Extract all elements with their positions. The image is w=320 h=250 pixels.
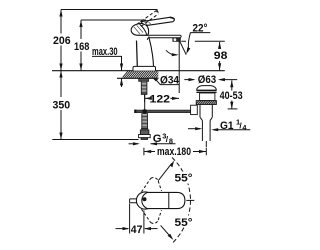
drain locknut hatched <box>196 101 216 105</box>
svg-text:122: 122 <box>150 93 171 105</box>
svg-text:Ø63: Ø63 <box>198 74 216 86</box>
lower 55deg axis line with arrow <box>161 225 172 237</box>
G1 1/4 left arrow <box>188 128 200 130</box>
white gap behind 55deg labels <box>173 172 195 184</box>
plan pill inner line <box>168 193 170 209</box>
mounting nut below deck <box>139 78 149 81</box>
svg-text:55°: 55° <box>175 217 193 229</box>
lever knob (cartridge cap) <box>131 23 149 35</box>
stream tilted 22deg line <box>180 42 186 55</box>
svg-text:max.180: max.180 <box>157 146 191 158</box>
plan pop-up rod stub <box>130 199 137 203</box>
rod ball joint <box>142 109 147 114</box>
plan small knob dot <box>143 197 147 201</box>
svg-text:47: 47 <box>131 224 143 236</box>
dimension max.180 <box>144 151 206 153</box>
rod fitting on drain <box>191 105 198 114</box>
dashed swivel arc <box>172 158 191 201</box>
dimension 40-53 vertical <box>231 80 233 90</box>
svg-text:350: 350 <box>53 100 71 112</box>
dimension O63 line with arrows <box>184 79 193 81</box>
swivel zero tick <box>186 199 194 201</box>
dashed raised lever <box>137 10 157 24</box>
wire deck top line <box>52 70 225 72</box>
stream vertical reference line from aerator <box>178 42 180 93</box>
drain flange dome <box>197 86 217 91</box>
wire 98 top reference line <box>181 40 225 42</box>
pop-up vertical rod <box>144 94 146 109</box>
lever knob shading <box>134 25 143 34</box>
plan view: body circle <box>136 192 153 209</box>
wire deck bottom line <box>117 77 159 79</box>
tick at faucet centerline <box>144 95 146 103</box>
arrow 122 right <box>172 97 179 100</box>
aerator under spout tip <box>173 38 181 42</box>
wire hose-end reference line <box>52 139 138 141</box>
horizontal pop-up rod to drain <box>135 110 191 112</box>
dimension 168 vertical line <box>80 20 82 39</box>
svg-text:40-53: 40-53 <box>220 90 243 102</box>
spout underside fillet into body <box>147 38 149 40</box>
lever blade (rest position) <box>141 17 175 25</box>
flexible hose ribbed <box>142 114 148 129</box>
dimension 47 <box>129 204 131 234</box>
svg-text:55°: 55° <box>175 173 193 185</box>
arrow at tilted line <box>186 47 190 54</box>
arc arrow left of vertical line <box>166 50 177 55</box>
dimension 122 line <box>145 97 179 99</box>
dimension 206 vertical line <box>60 10 62 34</box>
faucet base plate <box>133 66 156 70</box>
svg-text:98: 98 <box>214 50 228 62</box>
faucet body column front edge <box>136 41 139 67</box>
raised lever tip <box>156 10 159 13</box>
lever blade tip accent <box>170 17 175 19</box>
lever blade shading <box>145 22 151 25</box>
drain taper to tailpipe <box>200 117 212 120</box>
dashed lever position down <box>142 209 162 223</box>
arrow 98 top <box>218 42 221 49</box>
arrow 168 bottom <box>79 64 82 71</box>
arrow 350 down to hose end <box>59 133 62 140</box>
arrow 206 bottom <box>59 64 62 71</box>
arrow max.30 up to deck bottom <box>121 78 123 87</box>
G3/8 hose end fitting <box>141 128 148 130</box>
svg-text:206: 206 <box>53 35 71 47</box>
spout blade top line and tip <box>137 35 182 38</box>
arrow 350 up to deck <box>59 71 62 78</box>
svg-text:168: 168 <box>74 41 89 53</box>
G1 1/4 leader underline with arrow <box>214 129 251 131</box>
arrow 168 top <box>79 20 82 27</box>
arrow max.30 down to deck top <box>120 64 123 71</box>
arrow max.180 left <box>144 150 151 153</box>
drain centerline below tailpipe <box>205 141 207 147</box>
label G3/8 <box>153 132 173 146</box>
dimension 350 vertical line <box>60 71 62 98</box>
rod left end cap <box>134 110 136 113</box>
leader curve from 22deg to tilted stream line <box>188 33 191 52</box>
faucet body back edge curve <box>149 37 154 67</box>
arrow O34 pointing at base edge <box>152 77 158 81</box>
plan view: lever pill <box>148 192 185 208</box>
wire 168 reference line <box>81 19 146 21</box>
dashed lever position up <box>142 178 162 192</box>
tick 40-53 bottom <box>228 108 238 110</box>
tick max.180 left at faucet CL <box>143 148 145 156</box>
upper 55deg axis line with arrow <box>158 163 172 180</box>
drain neck <box>200 93 215 101</box>
arrow 40-53 up <box>230 80 233 87</box>
drain body <box>200 105 212 118</box>
lever knob seam <box>140 24 147 35</box>
arrow 206 top <box>59 10 62 17</box>
dimension 98 vertical <box>219 42 221 49</box>
drain flange base plates <box>196 90 216 92</box>
deck section hatch <box>119 69 167 82</box>
arrow max.180 right <box>199 150 206 153</box>
label G1 1/4 <box>220 118 247 133</box>
drain tailpipe <box>202 120 210 141</box>
threaded shank <box>141 81 147 94</box>
arrow 98 bottom <box>218 63 221 70</box>
tick max.180 right at drain CL <box>205 148 207 156</box>
wire 206 top reference line <box>61 9 158 11</box>
arrow 40-53 down <box>230 102 233 109</box>
plan circle overlap arc <box>142 192 148 208</box>
arrow 122 left <box>145 97 152 100</box>
G3/8 leader underline with arrows <box>151 143 176 145</box>
